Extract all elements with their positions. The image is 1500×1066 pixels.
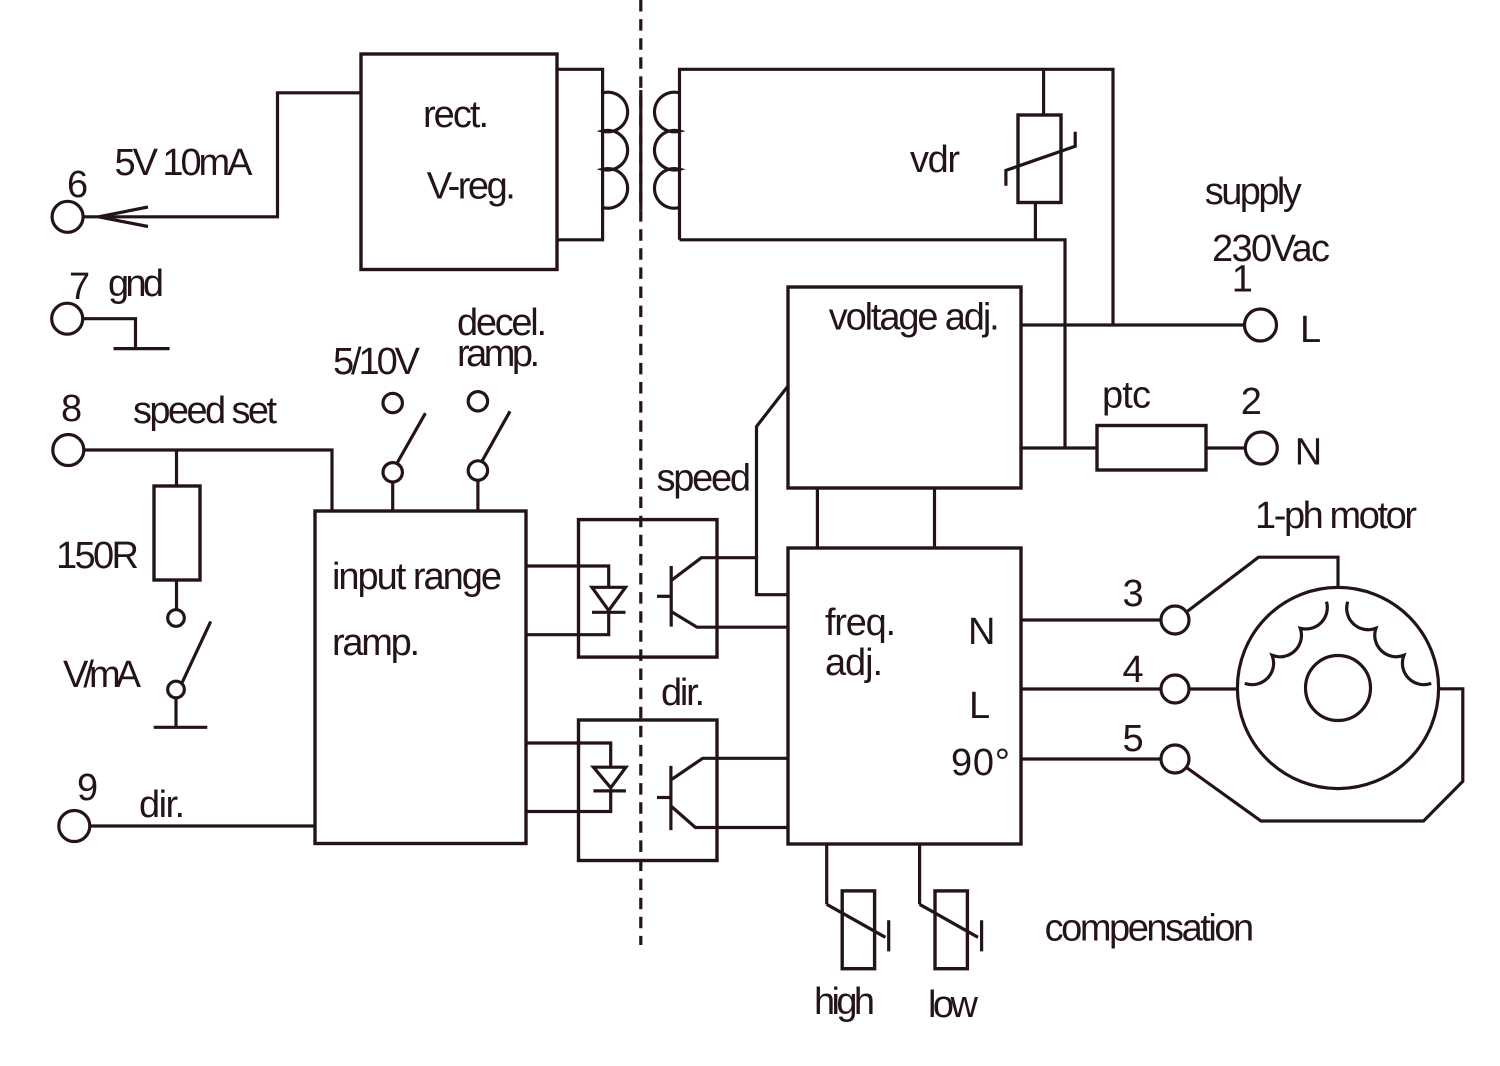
terminal 9 [59, 811, 90, 842]
wire terminal 5 to motor [1187, 689, 1463, 821]
svg-text:supply: supply [1205, 171, 1302, 213]
svg-text:230Vac: 230Vac [1212, 228, 1330, 270]
svg-text:3: 3 [1123, 573, 1144, 615]
motor body [1237, 587, 1438, 788]
svg-text:5: 5 [1123, 718, 1144, 760]
svg-text:speed: speed [657, 458, 752, 500]
svg-text:4: 4 [1123, 649, 1144, 691]
trimmer low wire [918, 844, 921, 904]
switch decel. ramp. [468, 392, 487, 411]
wire terminal 6 to rect. V-reg. box [84, 93, 361, 217]
transformer core [639, 90, 642, 210]
wire N output [1021, 618, 1161, 621]
svg-text:1-ph motor: 1-ph motor [1255, 495, 1417, 537]
block rect. V-reg. [361, 54, 557, 270]
wire secondary top to L line [680, 69, 1114, 325]
wire voltage adj. to freq. adj. left [816, 488, 819, 548]
opto speed phototransistor [670, 566, 673, 627]
svg-text:150R: 150R [56, 535, 139, 577]
svg-text:speed set: speed set [133, 390, 277, 432]
opto speed LED wires [526, 566, 609, 635]
wire L [1021, 323, 1244, 326]
opto dir LED [593, 767, 626, 788]
svg-text:adj.: adj. [825, 642, 883, 684]
svg-text:8: 8 [61, 388, 82, 430]
wire terminal 9 to input range box [90, 824, 315, 827]
svg-text:L: L [969, 685, 990, 727]
terminal 7 [52, 303, 83, 334]
terminal 6 [52, 201, 83, 232]
wire terminal 4 to motor [1189, 687, 1237, 690]
svg-text:6: 6 [67, 164, 88, 206]
optocoupler dir box [579, 720, 718, 861]
switch V/mA [168, 610, 185, 627]
terminal 2 N [1245, 432, 1277, 464]
svg-text:rect.: rect. [423, 94, 489, 136]
motor winding left [1245, 602, 1328, 685]
svg-text:N: N [968, 611, 995, 653]
optocoupler speed box [579, 520, 718, 658]
transformer secondary winding [654, 92, 679, 208]
svg-text:ptc: ptc [1102, 375, 1151, 417]
motor shaft [1306, 656, 1371, 721]
terminal 8 [53, 435, 84, 466]
svg-text:5/10V: 5/10V [333, 341, 421, 383]
svg-text:freq.: freq. [825, 602, 896, 644]
varistor vdr [1042, 69, 1045, 115]
block freq. adj. [788, 548, 1021, 844]
svg-text:9: 9 [77, 767, 98, 809]
transformer primary winding [557, 69, 603, 240]
opto dir phototransistor [669, 766, 672, 830]
wire terminal 3 to motor [1187, 557, 1339, 612]
opto dir LED wires [526, 743, 611, 812]
terminal 3 [1161, 606, 1189, 634]
wire voltage adj. to freq. adj. right [933, 488, 936, 548]
opto speed LED [592, 587, 626, 610]
svg-text:1: 1 [1232, 259, 1253, 301]
svg-text:L: L [1300, 309, 1321, 351]
svg-text:ramp.: ramp. [457, 333, 540, 375]
dashed divider line [639, 0, 642, 945]
trimmer high [842, 891, 874, 969]
trimmer high wire [825, 844, 828, 904]
svg-text:low: low [928, 984, 979, 1026]
svg-text:dir.: dir. [139, 784, 185, 826]
svg-text:7: 7 [69, 266, 90, 308]
svg-text:V/mA: V/mA [63, 654, 142, 696]
svg-text:90°: 90° [951, 742, 1010, 784]
wire 150R to switch [175, 580, 178, 610]
terminal 1 L [1245, 309, 1277, 341]
block input range ramp. [315, 511, 526, 844]
svg-text:2: 2 [1241, 381, 1262, 423]
svg-text:dir.: dir. [661, 672, 705, 714]
svg-text:gnd: gnd [108, 263, 164, 305]
svg-text:input range: input range [332, 556, 502, 598]
switch 5/10V [383, 393, 402, 412]
resistor 150R [154, 486, 200, 580]
wire L output [1021, 687, 1161, 690]
svg-text:high: high [814, 981, 875, 1023]
svg-text:ramp.: ramp. [332, 622, 420, 664]
wire secondary bottom to N line [680, 240, 1066, 448]
thermistor ptc [1097, 426, 1206, 471]
ground [84, 319, 170, 349]
svg-text:N: N [1295, 431, 1322, 473]
wire ptc to N [1206, 446, 1245, 449]
svg-text:V-reg.: V-reg. [427, 166, 516, 208]
wire 90 output [1021, 757, 1161, 760]
trimmer low [935, 891, 967, 969]
terminal 4 [1161, 675, 1189, 703]
wire speed set to input range box [84, 450, 332, 511]
svg-text:5V 10mA: 5V 10mA [115, 142, 254, 184]
arrow 5V 10mA [99, 207, 149, 227]
wire voltage adj. to ptc [1021, 446, 1097, 449]
svg-text:voltage adj.: voltage adj. [829, 297, 1000, 339]
svg-text:vdr: vdr [910, 139, 960, 181]
motor winding right [1347, 602, 1432, 685]
svg-text:compensation: compensation [1045, 908, 1255, 950]
terminal 5 [1161, 745, 1189, 773]
wire junction to 150R [175, 450, 178, 486]
node speed wire [757, 386, 789, 595]
block voltage adj. [788, 287, 1021, 488]
